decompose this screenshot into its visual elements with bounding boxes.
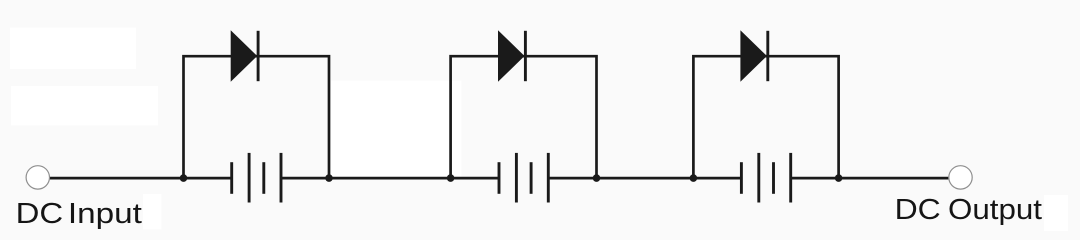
battery B2 plate 4 (tall, positive) — [547, 153, 550, 203]
battery B2 plate 2 (tall, positive) — [515, 153, 518, 203]
wire: main line segment from DC input terminal to battery B1 — [50, 177, 232, 180]
white mask box top-left 1 — [10, 28, 136, 70]
battery B1 plate 4 (tall, positive) — [280, 153, 283, 203]
battery B1 plate 2 (tall, positive) — [248, 153, 251, 203]
battery B3 plate 2 (tall, positive) — [757, 153, 760, 203]
white mask box after Output label — [1044, 195, 1068, 231]
junction dot: cell 1 left node — [180, 174, 188, 182]
battery B1 plate 1 (short, negative) — [230, 162, 233, 194]
svg-text:DC: DC — [895, 194, 941, 226]
wire: main line segment from battery B3 to DC output terminal — [791, 177, 949, 180]
diode D2 triangle (anode) — [498, 30, 525, 82]
battery B3 plate 1 (short, negative) — [740, 162, 743, 194]
diode D1 cathode bar — [257, 31, 260, 81]
diode D1 triangle (anode) — [231, 30, 258, 82]
diode D3 cathode bar — [766, 31, 769, 81]
junction dot: cell 3 right node — [835, 174, 843, 182]
battery B2 plate 3 (short, negative) — [530, 162, 533, 194]
junction dot: cell 2 left node — [447, 174, 455, 182]
wire: bypass loop 2 (up-over-down) — [451, 56, 597, 178]
junction dot: cell 2 right node — [593, 174, 601, 182]
diode D3 triangle (anode) — [740, 30, 767, 82]
terminal: DC input open circle — [26, 166, 49, 189]
battery B1 plate 3 (short, negative) — [262, 162, 265, 194]
svg-text:Output: Output — [948, 194, 1042, 226]
junction dot: cell 3 left node — [690, 174, 698, 182]
battery B3 plate 3 (short, negative) — [772, 162, 775, 194]
wire: main line segment from battery B2 to battery B3 — [548, 177, 742, 180]
battery B2 plate 1 (short, negative) — [498, 162, 501, 194]
wire: main line segment from battery B1 to battery B2 — [281, 177, 499, 180]
battery B3 plate 4 (tall, positive) — [789, 153, 792, 203]
wire: bypass loop 1 (up-over-down) — [184, 56, 330, 178]
terminal: DC output open circle — [949, 166, 972, 189]
white mask box between cell 1 and cell 2 — [331, 81, 462, 178]
white mask box top-left 2 — [11, 86, 158, 126]
svg-text:Input: Input — [68, 198, 142, 230]
diode D2 cathode bar — [524, 31, 527, 81]
svg-text:DC: DC — [16, 198, 64, 230]
junction dot: cell 1 right node — [325, 174, 333, 182]
wire: bypass loop 3 (up-over-down) — [693, 56, 838, 178]
white mask box after Input label — [143, 194, 162, 230]
